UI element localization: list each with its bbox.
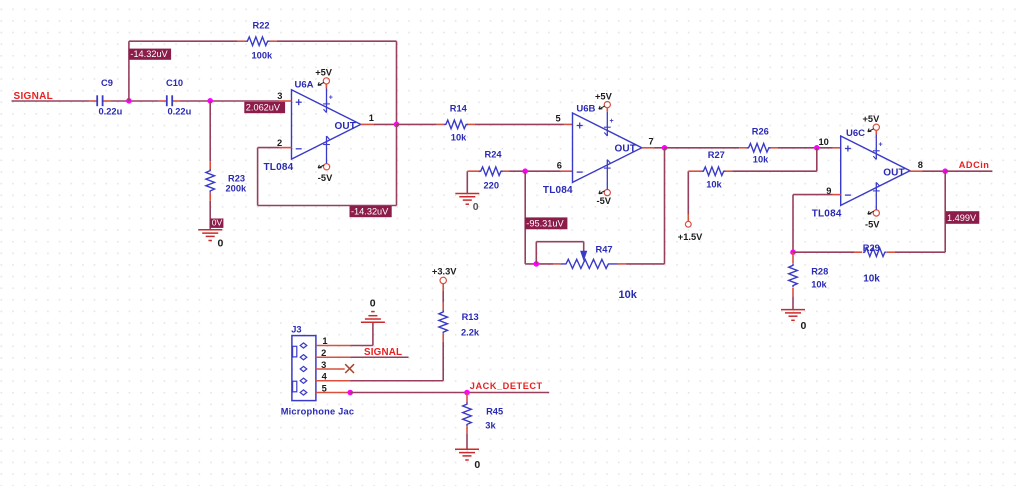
svg-text:0: 0 xyxy=(474,459,480,471)
wire R23 to ground xyxy=(209,201,211,230)
wire top left to R22 xyxy=(129,40,238,42)
svg-text:ADCin: ADCin xyxy=(959,160,990,170)
ground 0 inverted above pin 1 xyxy=(361,297,385,322)
svg-text:+: + xyxy=(879,142,883,149)
svg-text:7: 7 xyxy=(649,136,654,146)
pin 3 stub xyxy=(277,91,291,101)
node SIGNAL net name xyxy=(14,91,54,102)
svg-text:5: 5 xyxy=(322,383,327,393)
svg-text:1: 1 xyxy=(322,336,327,346)
wire ADCin out xyxy=(945,170,992,172)
wire node B down xyxy=(209,101,211,161)
svg-text:+5V: +5V xyxy=(595,91,613,101)
svg-text:R24: R24 xyxy=(485,150,503,160)
op-amp U6A OUT label xyxy=(335,121,356,132)
node ADCin junction xyxy=(942,168,948,174)
svg-text:100k: 100k xyxy=(252,51,274,61)
wire output U6B to R26 xyxy=(665,147,740,149)
node bias -95.31uV xyxy=(525,217,568,229)
wire R29 right xyxy=(895,251,945,253)
svg-text:R47: R47 xyxy=(596,244,613,254)
ground 0 below R45 xyxy=(455,449,480,471)
node JACK_DETECT net name xyxy=(470,381,543,391)
op-amp U6C power pins xyxy=(873,135,883,210)
pin 4 jack xyxy=(316,372,350,382)
wire R47 up to output U6B xyxy=(664,148,666,264)
wire to R47 left xyxy=(525,263,553,265)
wire node G to R29 xyxy=(793,251,854,253)
wire SIGNAL input xyxy=(12,100,90,102)
node bias -14.32uV bottom xyxy=(350,206,392,217)
resistor R27 xyxy=(688,150,732,189)
wire pin 5 JACK_DETECT xyxy=(350,392,549,394)
svg-text:3k: 3k xyxy=(485,421,496,431)
svg-text:JACK_DETECT: JACK_DETECT xyxy=(470,381,543,391)
ground 0 below R24 xyxy=(455,194,479,214)
node output junction U6A xyxy=(394,122,400,128)
svg-text:0: 0 xyxy=(370,297,376,309)
svg-text:10k: 10k xyxy=(811,280,827,290)
op-amp U6C OUT label xyxy=(883,168,904,179)
svg-text:R29: R29 xyxy=(863,243,880,253)
node B junction xyxy=(207,98,213,104)
resistor R24 xyxy=(467,150,509,191)
wire +1.5V up xyxy=(687,171,689,214)
wire feedback up to pin 2 xyxy=(257,148,259,206)
svg-text:U6C: U6C xyxy=(846,128,865,139)
svg-text:+5V: +5V xyxy=(863,114,881,124)
svg-text:0.22u: 0.22u xyxy=(168,107,192,117)
svg-text:2: 2 xyxy=(321,348,326,358)
svg-text:R14: R14 xyxy=(450,104,468,114)
svg-text:-5V: -5V xyxy=(318,173,333,183)
svg-text:C10: C10 xyxy=(166,78,183,88)
power +1.5V xyxy=(678,214,703,242)
resistor R13 xyxy=(439,303,480,342)
svg-text:-14.32uV: -14.32uV xyxy=(130,49,168,59)
svg-text:C9: C9 xyxy=(101,78,113,88)
svg-text:10: 10 xyxy=(819,137,829,147)
wire R47 right xyxy=(626,263,665,265)
op-amp U6C TL084 label xyxy=(812,209,842,220)
wire C10 to pin 3 xyxy=(180,100,280,102)
op-amp U6B TL084 label xyxy=(543,185,573,196)
svg-text:5: 5 xyxy=(556,114,561,124)
svg-text:TL084: TL084 xyxy=(543,185,573,196)
svg-text:R27: R27 xyxy=(708,150,725,160)
wire to pin 2 xyxy=(258,147,280,149)
wire R26 to pin 10 xyxy=(778,147,833,149)
resistor R14 xyxy=(437,104,475,143)
node ADCin net name xyxy=(959,160,990,170)
power +5V U6A xyxy=(315,68,333,89)
svg-text:R26: R26 xyxy=(752,126,769,136)
power +3.3V xyxy=(432,267,457,292)
svg-text:OUT: OUT xyxy=(615,144,636,155)
svg-text:+1.5V: +1.5V xyxy=(678,232,703,242)
svg-text:TL084: TL084 xyxy=(812,209,842,220)
svg-text:TL084: TL084 xyxy=(264,162,294,173)
svg-text:+3.3V: +3.3V xyxy=(432,267,457,277)
op-amp U6A power pins xyxy=(323,89,333,164)
wire C9 to C10 xyxy=(110,100,158,102)
wire R13 down to pin 4 xyxy=(442,342,444,381)
ground 0 below R28 xyxy=(781,310,807,332)
svg-text:10k: 10k xyxy=(863,273,880,284)
op-amp U6B power pins xyxy=(604,112,614,190)
wire pin 2 SIGNAL xyxy=(350,356,408,358)
wire R27 up to node F xyxy=(816,148,818,171)
wire R27 right xyxy=(732,170,817,172)
svg-text:+: + xyxy=(610,118,614,125)
connector J3 microphone jack xyxy=(281,324,355,416)
pin 3 jack xyxy=(316,360,345,370)
svg-text:R22: R22 xyxy=(253,21,270,31)
svg-text:Microphone Jac: Microphone Jac xyxy=(281,407,355,417)
svg-text:200k: 200k xyxy=(226,184,248,194)
wire right corner down to output node xyxy=(396,41,398,124)
pin 1 output stub xyxy=(361,113,397,125)
node JACK_DETECT junction xyxy=(464,390,470,396)
svg-text:OUT: OUT xyxy=(335,121,356,132)
op-amp U6C xyxy=(841,128,910,206)
svg-text:0: 0 xyxy=(473,201,479,213)
svg-text:-14.32uV: -14.32uV xyxy=(351,207,389,217)
svg-text:OUT: OUT xyxy=(883,168,904,179)
svg-text:6: 6 xyxy=(557,161,562,171)
svg-text:2: 2 xyxy=(277,138,282,148)
no-connect X pin 3 xyxy=(345,364,354,373)
svg-text:J3: J3 xyxy=(291,324,301,334)
wire R22 to right corner xyxy=(277,40,397,42)
svg-text:3: 3 xyxy=(321,360,326,370)
wire node A up xyxy=(128,41,130,101)
op-amp U6B OUT label xyxy=(615,144,636,155)
resistor R29 xyxy=(854,243,895,284)
wire R14 to pin 5 xyxy=(475,123,564,125)
node E junction xyxy=(534,261,540,267)
node bias 0V xyxy=(210,217,223,228)
svg-text:2.062uV: 2.062uV xyxy=(246,103,281,113)
potentiometer R47 xyxy=(553,244,637,301)
svg-text:2.2k: 2.2k xyxy=(461,328,480,338)
wire feedback down xyxy=(396,124,398,205)
pin 8 output stub xyxy=(910,160,945,171)
svg-text:10k: 10k xyxy=(619,289,638,301)
wire pin 4 to R13 xyxy=(350,380,443,382)
svg-text:R23: R23 xyxy=(228,174,245,184)
ground 0 below R23 xyxy=(198,230,223,250)
svg-text:-5V: -5V xyxy=(597,196,612,206)
svg-text:-95.31uV: -95.31uV xyxy=(526,219,564,229)
pin 5 jack xyxy=(316,383,350,393)
svg-text:0: 0 xyxy=(801,320,807,332)
svg-text:8: 8 xyxy=(918,160,923,170)
svg-text:10k: 10k xyxy=(753,154,769,164)
svg-text:U6A: U6A xyxy=(295,80,314,91)
wire output U6A to R14 xyxy=(397,123,437,125)
wire ground up to R24 xyxy=(466,171,468,193)
pin 1 jack xyxy=(316,336,350,346)
node bias -14.32uV top xyxy=(129,49,171,60)
svg-text:R45: R45 xyxy=(486,407,503,417)
pin 7 output stub xyxy=(642,136,665,147)
svg-text:R13: R13 xyxy=(462,312,479,322)
wire R29 up to ADCin node xyxy=(944,171,946,252)
pin 2 jack xyxy=(316,348,350,358)
node F junction xyxy=(814,145,820,151)
node G junction xyxy=(790,249,796,255)
pin 10 stub xyxy=(819,137,841,148)
svg-text:4: 4 xyxy=(322,372,328,382)
svg-text:0: 0 xyxy=(218,238,224,250)
svg-text:SIGNAL: SIGNAL xyxy=(364,347,402,358)
wire pin 9 down xyxy=(792,195,794,253)
wire R28 to ground xyxy=(792,296,794,309)
node output junction U6B xyxy=(662,145,668,151)
pin 5 stub xyxy=(556,114,573,125)
capacitor C10 xyxy=(159,78,192,117)
resistor R45 xyxy=(463,393,503,435)
svg-text:+: + xyxy=(329,95,333,102)
power -5V U6C xyxy=(865,210,880,229)
wire node D down xyxy=(524,171,526,264)
wire pin 9 left xyxy=(793,194,833,196)
node A junction xyxy=(126,98,132,104)
svg-text:1.499V: 1.499V xyxy=(947,213,977,223)
svg-text:10k: 10k xyxy=(706,179,722,189)
node SIGNAL net name at jack xyxy=(364,347,402,358)
op-amp U6B xyxy=(573,103,642,182)
wire wiper up xyxy=(535,242,537,264)
wire wiper down to arrow xyxy=(583,242,585,252)
svg-text:0V: 0V xyxy=(212,217,223,227)
wire pin 1 to ground xyxy=(350,323,373,346)
resistor R22 xyxy=(238,21,277,61)
node bias 2.062uV xyxy=(244,102,285,113)
resistor R28 xyxy=(789,252,829,296)
node jack pin5 junction xyxy=(347,390,353,396)
node D junction xyxy=(522,168,528,174)
op-amp U6A xyxy=(292,80,361,160)
wire R45 to ground xyxy=(466,434,468,449)
op-amp U6A TL084 label xyxy=(264,162,294,173)
svg-text:U6B: U6B xyxy=(576,103,595,114)
wire +3.3V to R13 xyxy=(442,291,444,303)
svg-text:220: 220 xyxy=(484,180,500,190)
capacitor C9 xyxy=(89,78,122,117)
power -5V U6B xyxy=(597,190,612,207)
power +5V U6C xyxy=(863,114,881,134)
pin 2 stub xyxy=(277,138,292,148)
svg-text:-5V: -5V xyxy=(865,219,880,229)
power -5V U6A xyxy=(318,164,333,183)
svg-text:10k: 10k xyxy=(451,133,467,143)
svg-text:SIGNAL: SIGNAL xyxy=(14,91,54,102)
svg-text:3: 3 xyxy=(277,91,282,101)
resistor R26 xyxy=(739,126,777,164)
power +5V U6B xyxy=(595,91,613,112)
svg-text:+5V: +5V xyxy=(315,68,333,78)
wire feedback bottom xyxy=(258,205,397,207)
wire wiper top xyxy=(536,241,583,243)
pin 6 stub xyxy=(557,161,573,172)
svg-text:0.22u: 0.22u xyxy=(99,107,123,117)
svg-text:1: 1 xyxy=(369,113,374,123)
wire R24 to pin 6 xyxy=(510,170,561,172)
pin 9 stub xyxy=(826,186,840,196)
svg-text:R28: R28 xyxy=(811,266,828,276)
resistor R23 xyxy=(206,161,247,201)
node bias 1.499V xyxy=(946,211,980,224)
